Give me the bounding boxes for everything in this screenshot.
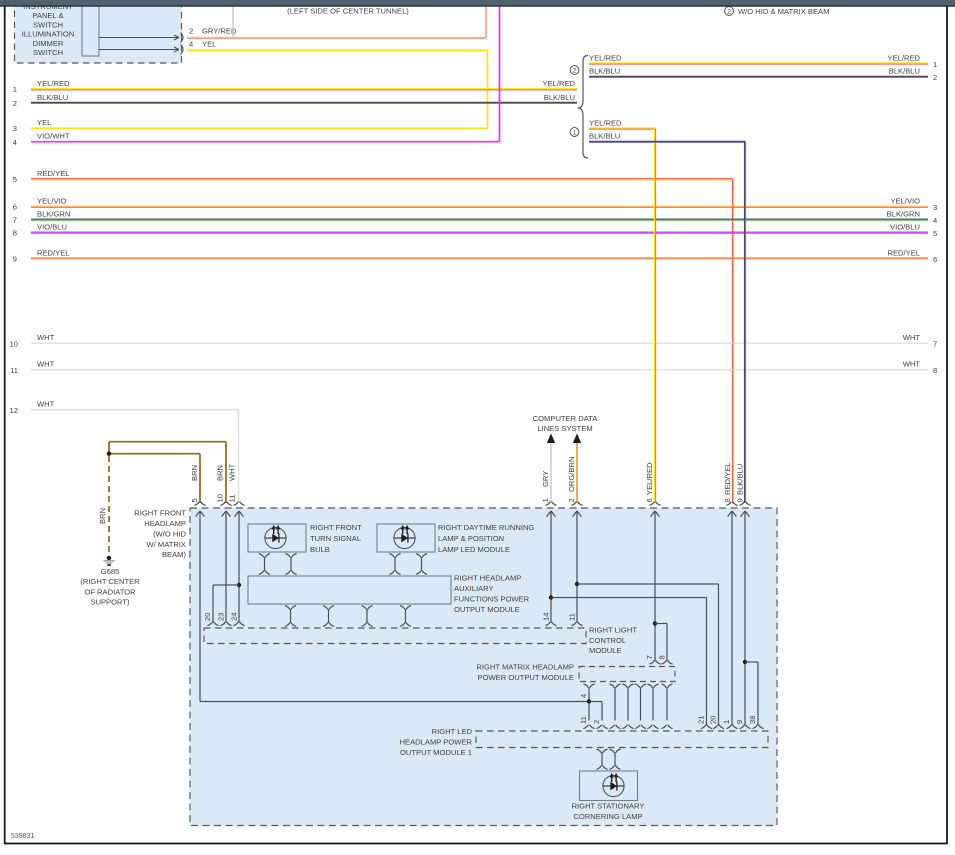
wire row 3 YEL [31, 127, 488, 129]
module entry pin 9 [739, 502, 750, 517]
right page border [946, 6, 948, 844]
svg-text:539831: 539831 [11, 833, 34, 840]
wire GRY vertical [550, 443, 552, 503]
svg-text:1: 1 [541, 498, 550, 502]
internal wire horizontal to matrix pin 4 node [200, 701, 589, 703]
matrix output wire 1 [583, 684, 594, 729]
matrix output wire 2 [609, 684, 620, 729]
svg-text:BLK/BLU: BLK/BLU [37, 93, 68, 102]
svg-text:WHT: WHT [903, 360, 921, 369]
LCM pin 11 bell [571, 622, 582, 626]
module entry pin 2 [571, 502, 582, 517]
svg-text:2: 2 [567, 498, 576, 502]
junction dot GRY branch [549, 595, 553, 599]
connector aux out 4 [400, 606, 411, 627]
turn signal bulb label [310, 523, 362, 554]
svg-text:4: 4 [579, 694, 588, 698]
connector turn signal pin b [285, 554, 296, 575]
svg-text:RIGHT FRONT: RIGHT FRONT [310, 523, 362, 532]
dimmer switch label text [22, 2, 75, 57]
aux module label [454, 574, 530, 615]
internal branch to LED pin 2 [589, 701, 602, 703]
internal wire pin 9 to LED pin 9 [744, 511, 746, 726]
internal branch to LED pin 38 [745, 661, 758, 663]
svg-text:RIGHT FRONT: RIGHT FRONT [134, 509, 186, 518]
right daytime running lamp box [377, 524, 435, 552]
svg-text:OF RADIATOR: OF RADIATOR [84, 587, 136, 596]
wire row 5 RED/YEL [31, 179, 733, 180]
svg-text:BRN: BRN [98, 508, 107, 524]
wire row 2 BLK/BLU [31, 102, 577, 103]
svg-text:10: 10 [10, 340, 18, 349]
svg-text:W/O HID & MATRIX BEAM: W/O HID & MATRIX BEAM [738, 7, 829, 16]
svg-text:4: 4 [933, 216, 937, 225]
circled 2 marker [570, 66, 579, 75]
matrix pin 7 bell [649, 660, 660, 664]
svg-text:AUXILIARY: AUXILIARY [454, 584, 494, 593]
right LED headlamp power output module 1 dashed box [476, 731, 768, 748]
LED pin 38 bell [752, 725, 763, 729]
arrow to computer data system GRY [547, 434, 555, 444]
svg-text:WHT: WHT [903, 333, 921, 342]
svg-text:4: 4 [13, 138, 17, 147]
svg-text:24: 24 [230, 613, 239, 621]
svg-text:COMPUTER DATA: COMPUTER DATA [533, 414, 599, 423]
svg-text:YEL: YEL [202, 40, 216, 49]
svg-text:2: 2 [592, 720, 601, 724]
LCM pin 24 bell [233, 622, 244, 626]
internal branch toward pin 20 [577, 583, 719, 585]
matrix output wire 5 [647, 684, 658, 729]
svg-text:BRN: BRN [190, 465, 199, 481]
svg-text:11: 11 [568, 613, 577, 621]
svg-text:6: 6 [645, 498, 654, 502]
cornering lamp LED icon [603, 773, 624, 797]
svg-text:YEL/VIO: YEL/VIO [890, 196, 920, 205]
wire row 10 WHT [31, 342, 928, 344]
svg-text:8: 8 [658, 655, 667, 659]
svg-text:TURN SIGNAL: TURN SIGNAL [310, 534, 361, 543]
connector aux out 3 [361, 606, 372, 627]
wire branch 2 BLK/BLU [589, 76, 928, 77]
svg-text:YEL: YEL [37, 118, 51, 127]
svg-text:14: 14 [542, 613, 551, 621]
svg-text:7: 7 [13, 216, 17, 225]
svg-text:RIGHT HEADLAMP: RIGHT HEADLAMP [454, 574, 521, 583]
right stationary cornering lamp box [580, 771, 638, 801]
internal wire pin 6 to matrix 7 [654, 511, 656, 661]
svg-text:1: 1 [573, 130, 577, 137]
svg-text:(LEFT SIDE OF CENTER TUNNEL): (LEFT SIDE OF CENTER TUNNEL) [287, 7, 409, 16]
svg-text:CORNERING LAMP: CORNERING LAMP [573, 812, 642, 821]
svg-text:LAMP & POSITION: LAMP & POSITION [438, 534, 504, 543]
svg-text:RIGHT STATIONARY: RIGHT STATIONARY [572, 802, 645, 811]
svg-text:VIO/BLU: VIO/BLU [37, 222, 67, 231]
svg-text:RIGHT LIGHT: RIGHT LIGHT [589, 625, 637, 634]
svg-text:11: 11 [579, 716, 588, 724]
wire YEL vertical drop [487, 50, 489, 128]
wire row 12 WHT [31, 409, 239, 411]
internal wire down to LCM 20 [212, 585, 214, 623]
svg-text:GRY/RED: GRY/RED [202, 27, 237, 36]
svg-text:YEL/RED: YEL/RED [589, 53, 622, 62]
right matrix headlamp module label [476, 663, 574, 683]
internal wire from pin 5 [199, 511, 201, 702]
svg-text:2: 2 [933, 73, 937, 82]
wire VIO/WHT vertical riser [499, 6, 501, 142]
svg-text:BEAM): BEAM) [162, 550, 187, 559]
right front headlamp module box [190, 508, 777, 826]
matrix output wire 3 [622, 684, 633, 729]
module entry pin 8 [726, 502, 737, 517]
wire ORG/BRN vertical [576, 443, 578, 503]
svg-text:2: 2 [13, 99, 17, 108]
LED pin 9 bell [739, 725, 750, 729]
wire YEL from dimmer [187, 49, 488, 51]
connector daytime lamp pin a [389, 554, 400, 575]
svg-text:SWITCH: SWITCH [33, 20, 63, 29]
svg-text:BLK/BLU: BLK/BLU [736, 464, 745, 495]
matrix output wire 6 [661, 684, 672, 729]
right headlamp auxiliary functions power output module box [248, 576, 451, 604]
wire GRY/RED vertical riser [485, 6, 487, 38]
right LED headlamp power output module 1 label [400, 727, 473, 757]
svg-text:BLK/GRN: BLK/GRN [37, 209, 70, 218]
svg-text:8: 8 [13, 229, 17, 238]
svg-text:7: 7 [933, 340, 937, 349]
svg-text:BLK/BLU: BLK/BLU [889, 67, 920, 76]
right front headlamp label [134, 509, 186, 560]
bottom page border [5, 843, 947, 845]
ground label G685 [80, 567, 140, 607]
svg-text:BLK/BLU: BLK/BLU [544, 93, 575, 102]
svg-text:SUPPORT): SUPPORT) [90, 598, 130, 607]
module entry pin 5 [194, 502, 205, 517]
connector cornering lamp a [596, 749, 607, 769]
wire row 8 VIO/BLU [31, 232, 928, 233]
svg-text:DIMMER: DIMMER [33, 39, 64, 48]
right front turn signal bulb box [248, 524, 306, 552]
svg-text:YEL/RED: YEL/RED [888, 53, 921, 62]
svg-text:2: 2 [573, 68, 577, 75]
internal branch toward pin 21 [551, 597, 707, 599]
svg-text:8: 8 [933, 366, 937, 375]
svg-text:(RIGHT CENTER: (RIGHT CENTER [80, 577, 140, 586]
internal wire pin 10 to LCM 23 [225, 511, 227, 623]
right light control module dashed box [204, 628, 586, 644]
svg-text:WHT: WHT [37, 360, 55, 369]
svg-text:WHT: WHT [37, 400, 55, 409]
svg-text:BRN: BRN [216, 465, 225, 481]
module entry pin 6 [649, 502, 660, 517]
wire RED/YEL vertical drop to pin 8 [733, 179, 734, 503]
internal wire pin 11 to LCM 24 [238, 511, 240, 623]
left page border [4, 6, 6, 844]
svg-text:FUNCTIONS POWER: FUNCTIONS POWER [454, 595, 530, 604]
svg-text:BLK/BLU: BLK/BLU [589, 132, 620, 141]
wire GRY riser at splice [232, 6, 234, 37]
svg-text:RIGHT LED: RIGHT LED [432, 727, 473, 736]
svg-text:YEL/RED: YEL/RED [37, 79, 70, 88]
wire BRN lower horizontal [109, 453, 200, 455]
LED pin 21 bell [701, 725, 712, 729]
svg-text:3: 3 [933, 203, 937, 212]
svg-text:OUTPUT MODULE 1: OUTPUT MODULE 1 [400, 748, 472, 757]
svg-text:YEL/RED: YEL/RED [543, 79, 576, 88]
internal wire pin 8 to LED pin 1 [731, 511, 733, 726]
svg-text:38: 38 [748, 716, 757, 724]
junction dot YEL/RED branch [653, 621, 657, 625]
svg-text:20: 20 [709, 716, 718, 724]
junction dot matrix pin 4 node [587, 699, 591, 703]
circled 2 note marker [725, 7, 734, 16]
svg-text:11: 11 [10, 366, 18, 375]
wire row 7 BLK/GRN [31, 219, 928, 220]
internal wire down to LED pin 21 [706, 598, 708, 726]
svg-text:SWITCH: SWITCH [33, 48, 63, 57]
wire BLK/BLU vertical drop to pin 9 [745, 142, 746, 503]
wire BRN vertical link [108, 442, 110, 454]
svg-text:2: 2 [189, 27, 193, 36]
svg-text:BLK/GRN: BLK/GRN [887, 209, 920, 218]
ground symbol G685 [104, 560, 115, 563]
svg-text:9: 9 [13, 255, 17, 264]
svg-text:6: 6 [933, 255, 937, 264]
svg-text:GRY: GRY [541, 471, 550, 487]
svg-text:CONTROL: CONTROL [589, 636, 626, 645]
svg-text:G685: G685 [101, 567, 120, 576]
wire row 11 WHT [31, 369, 928, 371]
svg-text:ILLUMINATION: ILLUMINATION [22, 30, 75, 39]
turn signal LED icon [265, 525, 286, 549]
LCM pin 14 bell [545, 622, 556, 626]
module entry pin 10 [220, 502, 231, 517]
wire row 9 RED/YEL [31, 258, 928, 259]
wire row 6 YEL/VIO [31, 206, 928, 207]
junction dot ORG branch [575, 582, 579, 586]
connector cornering lamp b [609, 749, 620, 769]
wire BRN upper horizontal [109, 441, 226, 443]
svg-text:23: 23 [217, 613, 226, 621]
wire branch 2 YEL/RED [589, 63, 928, 64]
internal wire down to matrix 8 [666, 624, 668, 662]
wire BRN drop to pin 10 [225, 442, 227, 503]
svg-text:WHT: WHT [37, 333, 55, 342]
svg-text:YEL/RED: YEL/RED [589, 118, 622, 127]
wire GRY/RED horizontal [187, 37, 486, 38]
svg-text:(W/O HID: (W/O HID [153, 529, 186, 538]
svg-text:BLK/BLU: BLK/BLU [589, 67, 620, 76]
wire row 4 VIO/WHT [31, 141, 500, 143]
svg-text:1: 1 [933, 60, 937, 69]
svg-text:5: 5 [13, 175, 17, 184]
internal branch to LCM 20 [213, 584, 239, 586]
junction dot BLK/BLU branch [743, 660, 747, 664]
connector daytime lamp pin b [416, 554, 427, 575]
svg-text:VIO/WHT: VIO/WHT [37, 132, 70, 141]
internal wire pin 1 to LCM 14 [550, 511, 552, 623]
internal wire down to LED pin 38 [757, 662, 759, 726]
svg-text:ORG/BRN: ORG/BRN [567, 457, 576, 492]
wire branch 1 BLK/BLU [589, 141, 746, 142]
module entry pin 11 [233, 502, 244, 517]
svg-text:BULB: BULB [310, 545, 330, 554]
dimmer switch inner component rect [82, 0, 99, 56]
svg-text:5: 5 [933, 229, 937, 238]
svg-text:LINES SYSTEM: LINES SYSTEM [537, 424, 592, 433]
svg-text:2: 2 [727, 9, 731, 16]
svg-text:WHT: WHT [228, 463, 237, 481]
light control module label [589, 625, 637, 655]
svg-text:21: 21 [697, 716, 706, 724]
dimmer switch output wire pin 4 [99, 45, 183, 55]
svg-text:12: 12 [10, 406, 18, 415]
instrument panel dimmer switch dashed box [15, 0, 182, 63]
svg-text:9: 9 [736, 498, 745, 502]
svg-text:YEL/VIO: YEL/VIO [37, 196, 67, 205]
svg-text:W/ MATRIX: W/ MATRIX [146, 540, 186, 549]
top title bar [0, 0, 955, 6]
internal branch to matrix 8 [655, 623, 667, 625]
svg-text:20: 20 [203, 613, 212, 621]
svg-text:VIO/BLU: VIO/BLU [890, 222, 920, 231]
svg-text:LAMP LED MODULE: LAMP LED MODULE [438, 545, 510, 554]
svg-text:POWER OUTPUT MODULE: POWER OUTPUT MODULE [478, 673, 574, 682]
LED pin 1 bell [726, 725, 737, 729]
svg-text:6: 6 [13, 203, 17, 212]
svg-text:11: 11 [228, 495, 237, 503]
svg-text:RED/YEL: RED/YEL [888, 248, 921, 257]
brace splitting rows 1-2 into branches 1 and 2 [578, 56, 589, 159]
daytime running LED icon [394, 525, 415, 549]
svg-text:5: 5 [190, 498, 199, 502]
wire BRN dashed to ground [108, 456, 110, 554]
svg-text:HEADLAMP: HEADLAMP [144, 519, 186, 528]
internal wire down to LED pin 20 [718, 584, 720, 726]
daytime running lamp label [438, 523, 534, 554]
svg-text:9: 9 [735, 720, 744, 724]
wire BRN drop to pin 5 [199, 454, 201, 503]
svg-text:RED/YEL: RED/YEL [723, 463, 732, 496]
right matrix headlamp power output module dashed box [579, 667, 675, 682]
connector turn signal pin a [259, 554, 270, 575]
LED pin 20 bell [713, 725, 724, 729]
svg-text:1: 1 [13, 85, 17, 94]
top bar dark underline [0, 5, 955, 6]
wire branch 1 YEL/RED [589, 128, 656, 129]
svg-text:RIGHT DAYTIME RUNNING: RIGHT DAYTIME RUNNING [438, 523, 534, 532]
matrix pin 8 bell [661, 660, 672, 664]
svg-text:MODULE: MODULE [589, 646, 622, 655]
svg-text:7: 7 [645, 655, 654, 659]
wire YEL/RED vertical drop to pin 6 [655, 129, 656, 503]
cornering lamp label [572, 802, 645, 822]
svg-text:OUTPUT MODULE: OUTPUT MODULE [454, 605, 520, 614]
connector aux out 2 [323, 606, 334, 627]
wire row 1 YEL/RED [31, 89, 577, 90]
arrow to computer data system ORG/BRN [573, 434, 581, 444]
junction dot WHT branch [237, 583, 241, 587]
svg-text:RED/YEL: RED/YEL [37, 169, 70, 178]
ground dot G685 [107, 556, 111, 560]
matrix output wire 4 [635, 684, 646, 729]
svg-text:RIGHT MATRIX HEADLAMP: RIGHT MATRIX HEADLAMP [476, 663, 574, 672]
svg-text:RED/YEL: RED/YEL [37, 248, 70, 257]
svg-text:PANEL &: PANEL & [32, 11, 63, 20]
dimmer switch output wire pin 2 [99, 33, 183, 43]
circled 1 marker [570, 128, 579, 137]
svg-text:10: 10 [216, 494, 225, 502]
svg-text:4: 4 [189, 40, 193, 49]
connector aux out 1 [285, 606, 296, 627]
svg-text:HEADLAMP POWER: HEADLAMP POWER [400, 738, 473, 747]
svg-text:1: 1 [722, 720, 731, 724]
svg-text:3: 3 [13, 124, 17, 133]
wire down to LED pin 2 [596, 702, 607, 729]
internal wire pin 2 to LCM 11 [576, 511, 578, 623]
junction dot BRN splice [107, 452, 111, 456]
module entry pin 1 [545, 502, 556, 517]
LCM pin 23 bell [220, 622, 231, 626]
LCM pin 20 bell [207, 622, 218, 626]
wire WHT vertical drop to pin 11 [238, 410, 240, 503]
svg-text:YEL/RED: YEL/RED [645, 462, 654, 495]
